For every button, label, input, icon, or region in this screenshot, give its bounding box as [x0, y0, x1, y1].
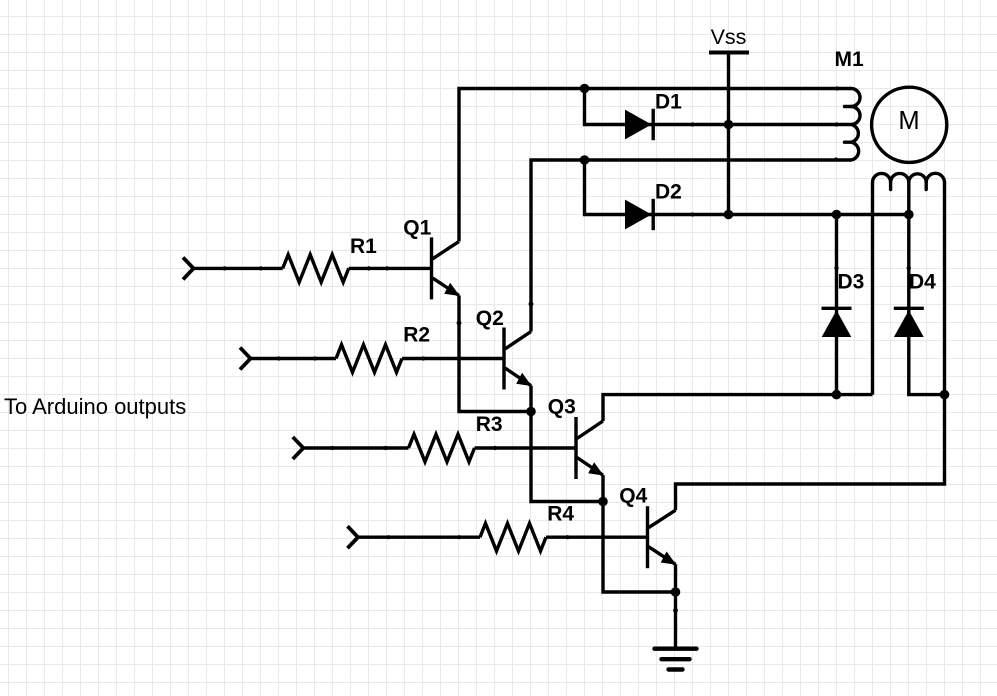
transistor Q1 [430, 237, 433, 299]
input chevron 2 [240, 348, 251, 370]
wire: D2 branch from third rail down and D2 row [585, 160, 909, 215]
small joint dots [835, 86, 839, 90]
wire: Vss stem [727, 53, 730, 215]
input chevron 1 [183, 257, 194, 279]
wire: D1 branch from top rail down and D1 row to coil middle tap [585, 89, 852, 125]
svg-text:R4: R4 [547, 502, 574, 525]
resistor R1 [283, 255, 349, 283]
ground [655, 649, 697, 670]
Q2 emitter arrow [516, 373, 532, 386]
svg-text:D3: D3 [838, 270, 865, 293]
wire: R3 input to resistor [303, 446, 408, 449]
diode D1 bar [652, 109, 655, 140]
diode D1 triangle [625, 110, 652, 140]
svg-text:R1: R1 [350, 235, 377, 258]
motor M1 circle [872, 87, 947, 162]
wire: Q2 collector up and third rail to coil bottom [531, 160, 851, 332]
wire: to ground [674, 592, 677, 649]
wire: Q3 collector to right rail [603, 395, 873, 421]
svg-text:Q3: Q3 [548, 395, 576, 418]
Q4 emitter arrow [661, 552, 677, 565]
svg-text:Q1: Q1 [403, 217, 431, 240]
junction node dots [580, 84, 590, 94]
svg-text:D4: D4 [909, 270, 936, 293]
wire: Q4 collector right and up to coil right leg [676, 183, 945, 511]
svg-text:R3: R3 [476, 413, 503, 436]
wire: R2 to Q2 base [402, 357, 503, 360]
diode D4 triangle [894, 310, 924, 337]
wire: R1 to Q1 base [349, 267, 431, 270]
diode D2 bar [652, 199, 655, 230]
diode D4 bar [894, 307, 924, 310]
input chevron 4 [348, 526, 359, 548]
svg-text:Q2: Q2 [476, 307, 504, 330]
resistor R3 [409, 434, 475, 462]
wire: R4 input to resistor [358, 536, 480, 539]
input chevron 3 [293, 437, 304, 459]
wire: R1 input to resistor [194, 267, 283, 270]
wire: node down to ground rail [603, 502, 676, 593]
motor winding A (vertical coil) [845, 89, 861, 161]
svg-text:M: M [898, 107, 919, 135]
resistor R4 [480, 523, 546, 551]
resistor R2 [336, 345, 402, 373]
motor winding B (horizontal coil) [873, 173, 945, 189]
wire: Q1 collector up and top rail to motor coil [459, 89, 851, 242]
wire: coil B center tap [907, 183, 910, 215]
svg-text:M1: M1 [835, 48, 864, 71]
wire: node to Q3 node [531, 412, 603, 502]
power Vss bar [709, 51, 749, 55]
Q3 emitter arrow [588, 462, 604, 475]
wire: Q3 emitter down to node [601, 475, 604, 501]
Q1 emitter arrow [444, 283, 460, 296]
svg-text:Vss: Vss [711, 25, 747, 49]
diode D2 triangle [625, 200, 652, 230]
wire: R2 input to resistor [251, 357, 337, 360]
diode D3 triangle [822, 310, 852, 337]
diode D3 bar [822, 307, 852, 310]
svg-text:D1: D1 [655, 91, 682, 114]
diode D3 wire [835, 215, 838, 395]
wire: Q4 emitter down [674, 564, 677, 592]
wire: coil B left leg [871, 183, 874, 395]
transistor Q4 [646, 506, 649, 568]
diode D4 wire [909, 215, 945, 395]
transistor Q3 [574, 417, 577, 479]
wire: R4 to Q4 base [546, 536, 647, 539]
wire: Q2 emitter down to node [529, 386, 532, 412]
svg-text:Q4: Q4 [619, 484, 647, 507]
svg-text:D2: D2 [655, 181, 682, 204]
svg-text:R2: R2 [403, 324, 430, 347]
wire: R3 to Q3 base [475, 446, 576, 449]
svg-text:To Arduino outputs: To Arduino outputs [4, 394, 186, 419]
wire: Q1 emitter down to node [459, 296, 531, 412]
transistor Q2 [502, 328, 505, 390]
